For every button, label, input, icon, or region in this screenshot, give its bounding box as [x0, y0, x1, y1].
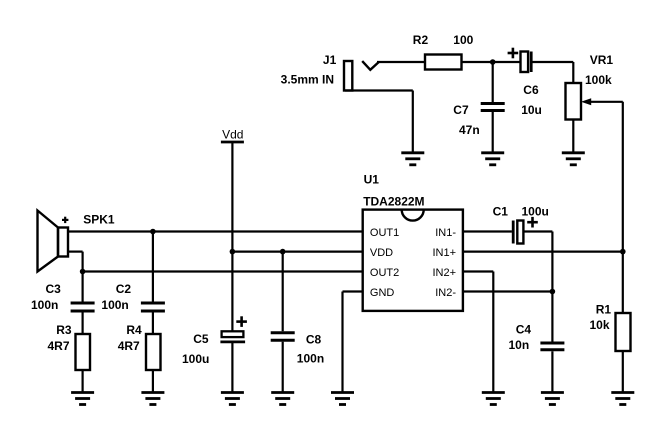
- wire R4 to ground: [152, 370, 154, 392]
- junction VDD/Vdd line: [230, 249, 236, 255]
- svg-text:10n: 10n: [509, 338, 530, 352]
- resistor R3: [76, 334, 91, 370]
- svg-text:C5: C5: [193, 332, 209, 346]
- capacitor C5 electrolytic: [220, 316, 247, 342]
- capacitor C4: [540, 292, 564, 392]
- wire jack tip to R2: [377, 61, 425, 63]
- svg-text:C6: C6: [523, 83, 539, 97]
- ground under IN2+: [482, 393, 505, 405]
- junction IN1+/wiper/R1: [620, 249, 626, 255]
- wire C6 to VR1: [532, 61, 573, 63]
- svg-text:10u: 10u: [521, 103, 542, 117]
- wire speaker bottom down: [81, 252, 83, 272]
- svg-text:IN1-: IN1-: [435, 227, 456, 239]
- wire OUT1 rail: [68, 230, 363, 232]
- speaker SPK1: [38, 211, 69, 272]
- svg-text:Vdd: Vdd: [222, 127, 243, 141]
- wire R1 to ground: [622, 351, 624, 392]
- junction OUT1/C2: [150, 229, 156, 235]
- capacitor C3: [71, 272, 95, 335]
- svg-text:OUT1: OUT1: [370, 227, 399, 239]
- svg-text:100n: 100n: [101, 298, 128, 312]
- op-amp U1 TDA2822M: [363, 210, 463, 311]
- wire IN1+ junction down to R1: [622, 252, 624, 313]
- capacitor C8: [271, 252, 295, 392]
- junction node R2/C7/C6: [490, 59, 496, 65]
- ground under C7: [481, 153, 504, 165]
- svg-text:4R7: 4R7: [48, 339, 70, 353]
- svg-text:3.5mm IN: 3.5mm IN: [281, 73, 334, 87]
- ground under C4: [541, 393, 564, 405]
- svg-text:4R7: 4R7: [118, 339, 140, 353]
- svg-text:C1: C1: [493, 204, 509, 218]
- wire IN1- to C1: [463, 230, 512, 232]
- wire jack sleeve horizontal: [345, 89, 413, 91]
- svg-text:10k: 10k: [590, 318, 610, 332]
- svg-text:100u: 100u: [522, 204, 549, 218]
- wire C1 down to IN2- rail: [551, 232, 553, 292]
- svg-text:IN1+: IN1+: [432, 247, 456, 259]
- resistor R2: [425, 55, 462, 70]
- svg-text:GND: GND: [370, 287, 395, 299]
- svg-text:IN2+: IN2+: [432, 267, 456, 279]
- ground under C5: [221, 393, 244, 405]
- svg-text:C8: C8: [306, 332, 322, 346]
- ground under VR1: [562, 153, 585, 165]
- wire C1 right: [523, 230, 552, 232]
- ground under R3: [71, 393, 94, 405]
- svg-text:100k: 100k: [585, 73, 612, 87]
- svg-text:VDD: VDD: [370, 247, 393, 259]
- resistor R4: [146, 334, 161, 370]
- wire GND pin down: [341, 292, 343, 392]
- wire VR1 bottom to ground: [572, 120, 574, 152]
- wire VDD rail: [232, 251, 362, 253]
- ground under R1: [611, 393, 634, 405]
- connector J1 3.5mm jack: [344, 61, 379, 91]
- svg-text:100n: 100n: [297, 352, 324, 366]
- svg-text:R2: R2: [413, 33, 429, 47]
- ground under U1 GND: [331, 393, 354, 405]
- junction OUT2/C3: [80, 269, 86, 275]
- capacitor C1 electrolytic: [513, 217, 538, 244]
- svg-text:VR1: VR1: [590, 53, 614, 67]
- svg-text:C7: C7: [453, 103, 469, 117]
- wire wiper down to IN1+ rail: [622, 102, 624, 252]
- svg-text:47n: 47n: [459, 123, 480, 137]
- svg-text:R4: R4: [126, 323, 142, 337]
- svg-text:U1: U1: [364, 173, 380, 187]
- svg-text:C4: C4: [516, 322, 532, 336]
- potentiometer VR1: [566, 83, 592, 120]
- wire jack sleeve down: [412, 91, 414, 152]
- junction IN2-/C1/C4: [550, 289, 556, 295]
- wire OUT2 rail: [83, 270, 363, 272]
- svg-text:C2: C2: [116, 282, 132, 296]
- power rail Vdd: [221, 142, 244, 331]
- wire R3 to ground: [81, 370, 83, 392]
- wire node to C6: [493, 61, 521, 63]
- ground under J1: [401, 153, 424, 165]
- svg-text:J1: J1: [323, 53, 337, 67]
- svg-text:OUT2: OUT2: [370, 267, 399, 279]
- capacitor C7: [481, 62, 505, 152]
- wire GND pin left: [343, 290, 363, 292]
- ground under R4: [141, 393, 164, 405]
- wire IN2+ down: [492, 272, 494, 392]
- wire IN2- rail: [463, 290, 553, 292]
- capacitor C6 electrolytic: [508, 48, 532, 72]
- wire IN2+ right: [463, 270, 493, 272]
- svg-text:SPK1: SPK1: [83, 213, 115, 227]
- svg-text:R1: R1: [596, 302, 612, 316]
- resistor R1: [616, 313, 631, 351]
- svg-text:R3: R3: [56, 323, 72, 337]
- capacitor C2: [141, 232, 165, 335]
- wire IN1+ rail: [463, 251, 623, 253]
- wire R2 to node: [462, 61, 493, 63]
- svg-text:C3: C3: [46, 282, 62, 296]
- wire down to VR1 top: [572, 62, 574, 83]
- svg-text:TDA2822M: TDA2822M: [363, 194, 424, 208]
- wire C5 to ground: [231, 343, 233, 392]
- svg-text:IN2-: IN2-: [435, 287, 456, 299]
- svg-text:100n: 100n: [31, 298, 58, 312]
- wire VR1 wiper to right: [590, 101, 623, 103]
- svg-text:100u: 100u: [182, 352, 209, 366]
- svg-text:100: 100: [453, 33, 473, 47]
- junction VDD/C8: [280, 249, 286, 255]
- wire speaker bottom terminal: [68, 251, 83, 253]
- ground under C8: [271, 393, 294, 405]
